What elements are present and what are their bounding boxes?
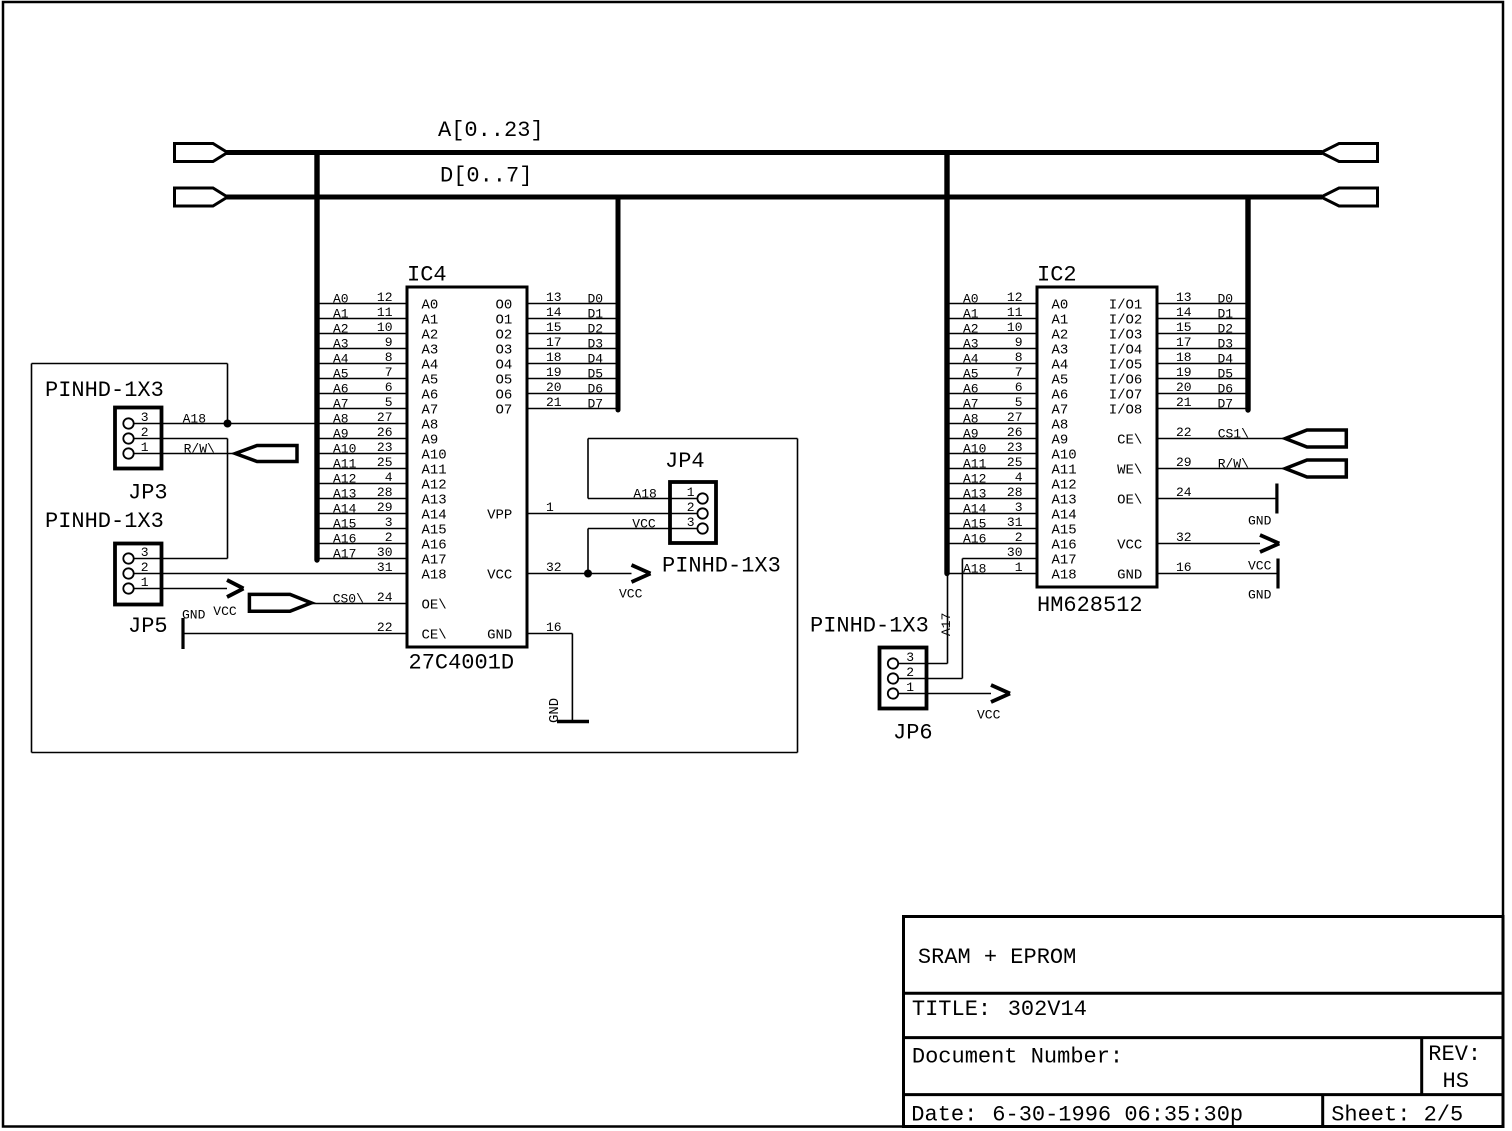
IC2 pin A4 (8) wire from bus A, net A4	[950, 350, 1038, 367]
svg-text:JP4: JP4	[665, 449, 705, 474]
svg-text:A14: A14	[963, 502, 987, 517]
wire JP6 pin3 net A17 vertical	[939, 574, 954, 664]
svg-text:I/O5: I/O5	[1109, 358, 1143, 374]
svg-text:24: 24	[1176, 485, 1192, 500]
IC4 pin A3 (9) wire from bus A, net A3	[320, 335, 408, 352]
IC4 pin A7 (5) wire from bus A, net A7	[320, 395, 408, 412]
svg-text:PINHD-1X3: PINHD-1X3	[45, 378, 164, 403]
svg-text:23: 23	[377, 440, 393, 455]
svg-text:D5: D5	[588, 367, 604, 382]
svg-text:A0: A0	[333, 292, 349, 307]
JP3 reference label	[128, 481, 168, 506]
svg-text:3: 3	[141, 410, 149, 425]
JP4 pins 1,2,3 with numbers	[670, 485, 708, 534]
IC2 pin A13 (28) wire from bus A, net A13	[950, 485, 1038, 502]
svg-text:D7: D7	[588, 397, 604, 412]
svg-text:12: 12	[377, 290, 393, 305]
svg-text:A5: A5	[1052, 373, 1069, 389]
svg-text:A4: A4	[422, 358, 439, 374]
svg-text:24: 24	[377, 590, 393, 605]
svg-text:GND: GND	[1248, 588, 1272, 603]
IC4 pin A6 (6) wire from bus A, net A6	[320, 380, 408, 397]
svg-text:A0: A0	[1052, 298, 1069, 314]
IC2 pin A18 (1) wire from bus A, net A18	[947, 560, 1037, 577]
svg-text:13: 13	[1176, 290, 1192, 305]
svg-text:A12: A12	[1052, 478, 1077, 494]
IC4 pin O1 (14) wire to bus D, net D1	[527, 305, 616, 322]
wire JP4 pin1 horizontal	[588, 487, 670, 502]
ram IC2 component box	[1037, 287, 1157, 587]
svg-text:HM628512: HM628512	[1037, 593, 1143, 618]
svg-text:A3: A3	[422, 343, 439, 359]
svg-text:Sheet: 2/5: Sheet: 2/5	[1331, 1103, 1463, 1128]
svg-text:A9: A9	[422, 433, 439, 449]
IC4 pin A4 (8) wire from bus A, net A4	[320, 350, 408, 367]
IC4 pin GND (16) wire	[527, 620, 572, 635]
svg-text:1: 1	[1015, 560, 1023, 575]
IC4 pin O6 (20) wire to bus D, net D6	[527, 380, 616, 397]
svg-text:A8: A8	[333, 412, 349, 427]
wire JP5 pin1 to VCC	[162, 588, 228, 590]
title block Sheet	[1331, 1103, 1463, 1128]
svg-text:2: 2	[141, 425, 149, 440]
svg-text:A13: A13	[1052, 493, 1077, 509]
IC4 pin O7 (21) wire to bus D, net D7	[527, 395, 616, 412]
IC2 pin I/O3 (15) wire to bus D, net D2	[1157, 320, 1246, 337]
svg-text:29: 29	[1176, 455, 1192, 470]
svg-text:3: 3	[1015, 500, 1023, 515]
svg-text:28: 28	[1007, 485, 1023, 500]
title block Date row	[911, 1103, 1243, 1128]
svg-text:R/W\: R/W\	[184, 442, 215, 457]
svg-text:IC4: IC4	[407, 263, 447, 288]
svg-text:WE\: WE\	[1117, 463, 1142, 479]
svg-text:16: 16	[1176, 560, 1192, 575]
bus D[0..7] left terminator	[175, 188, 228, 206]
IC2 pin A9 (26) wire from bus A, net A9	[950, 425, 1038, 442]
svg-text:A7: A7	[422, 403, 439, 419]
VCC symbol at JP6 pin1	[977, 685, 1010, 723]
IC2 pin A2 (10) wire from bus A, net A2	[950, 320, 1038, 337]
svg-text:20: 20	[1176, 380, 1192, 395]
svg-text:O3: O3	[495, 343, 512, 359]
ground symbol at IC2 OE\	[1248, 484, 1277, 529]
JP4 reference label	[665, 449, 705, 474]
svg-text:A11: A11	[963, 457, 987, 472]
svg-text:2: 2	[141, 560, 149, 575]
svg-text:D1: D1	[1218, 307, 1234, 322]
svg-text:VCC: VCC	[213, 604, 237, 619]
wire net A18 loop right edge	[797, 439, 799, 753]
svg-text:21: 21	[546, 395, 562, 410]
svg-text:VCC: VCC	[619, 587, 643, 602]
svg-text:A11: A11	[422, 463, 447, 479]
svg-text:13: 13	[546, 290, 562, 305]
wire JP3 pin3 net A18 to bus A	[162, 412, 318, 427]
VCC symbol right of IC2	[1248, 535, 1279, 574]
svg-text:A13: A13	[333, 487, 356, 502]
svg-text:I/O8: I/O8	[1109, 403, 1143, 419]
svg-text:D4: D4	[1218, 352, 1234, 367]
svg-text:A7: A7	[333, 397, 349, 412]
IC2 pin A7 (5) wire from bus A, net A7	[950, 395, 1038, 412]
connector JP3 PINHD-1X3 box	[115, 408, 162, 469]
svg-text:7: 7	[385, 365, 393, 380]
svg-text:Document Number:: Document Number:	[912, 1045, 1123, 1070]
connector JP6 PINHD-1X3 box	[880, 648, 927, 709]
IC2 inside pin names right column	[1109, 298, 1143, 584]
wire JP5 pin3 stub	[162, 558, 228, 560]
IC2 pin A11 (25) wire from bus A, net A11	[950, 455, 1038, 472]
ground symbol at IC4 CE\	[182, 608, 206, 650]
svg-text:HS: HS	[1443, 1069, 1469, 1094]
svg-text:30: 30	[377, 545, 393, 560]
svg-text:1: 1	[906, 680, 914, 695]
svg-text:14: 14	[546, 305, 562, 320]
svg-text:A16: A16	[1052, 538, 1077, 554]
svg-text:26: 26	[377, 425, 393, 440]
svg-text:VCC: VCC	[487, 568, 512, 584]
IC4 pin O2 (15) wire to bus D, net D2	[527, 320, 616, 337]
IC4 pin A13 (28) wire from bus A, net A13	[320, 485, 408, 502]
svg-text:A17: A17	[939, 613, 954, 636]
wire net A18 loop top-left	[32, 363, 228, 365]
svg-text:19: 19	[546, 365, 562, 380]
net CS0\ offpage flag	[249, 594, 311, 611]
svg-text:A3: A3	[1052, 343, 1069, 359]
bus A[0..23] right terminator	[1321, 144, 1378, 162]
title block frame	[904, 917, 1504, 1127]
svg-text:A17: A17	[333, 547, 356, 562]
IC2 pin WE\ (29) wire, net R/W\	[1157, 455, 1285, 472]
IC2 pin A5 (7) wire from bus A, net A5	[950, 365, 1038, 382]
IC4 pin A5 (7) wire from bus A, net A5	[320, 365, 408, 382]
wire JP3 pin2 to JP5 pin3 (vert)	[227, 439, 229, 559]
svg-text:31: 31	[1007, 515, 1023, 530]
svg-text:A5: A5	[963, 367, 979, 382]
svg-text:D2: D2	[588, 322, 604, 337]
svg-text:15: 15	[546, 320, 562, 335]
svg-text:21: 21	[1176, 395, 1192, 410]
svg-text:22: 22	[377, 620, 393, 635]
svg-text:A13: A13	[963, 487, 986, 502]
IC4 pin OE\ (24) wire with net CS0\	[311, 590, 407, 607]
JP3 pins 3,2,1 with numbers	[123, 410, 161, 459]
IC4 pin A0 (12) wire from bus A, net A0	[320, 290, 408, 307]
svg-text:I/O7: I/O7	[1109, 388, 1143, 404]
svg-text:A12: A12	[963, 472, 986, 487]
IC2 pin A15 (31) wire from bus A, net A15	[950, 515, 1038, 532]
svg-text:VCC: VCC	[1248, 559, 1272, 574]
svg-text:A15: A15	[333, 517, 356, 532]
title block text SRAM + EPROM	[918, 945, 1076, 970]
svg-text:D6: D6	[588, 382, 604, 397]
svg-text:CE\: CE\	[422, 628, 447, 644]
svg-text:A12: A12	[333, 472, 356, 487]
svg-text:Date:: Date:	[911, 1103, 977, 1128]
svg-text:R/W\: R/W\	[1218, 457, 1249, 472]
svg-text:GND: GND	[1117, 568, 1142, 584]
IC2 pin A16 (2) wire from bus A, net A16	[950, 530, 1038, 547]
svg-text:A0: A0	[963, 292, 979, 307]
svg-text:1: 1	[141, 440, 149, 455]
svg-text:A1: A1	[1052, 313, 1069, 329]
IC4 pin A9 (26) wire from bus A, net A9	[320, 425, 408, 442]
JP3 library label PINHD-1X3	[45, 378, 164, 403]
svg-text:VCC: VCC	[1117, 538, 1142, 554]
svg-text:A14: A14	[1052, 508, 1077, 524]
wire JP6 pin3 net A17 horizontal	[927, 663, 948, 665]
svg-text:A18: A18	[963, 562, 986, 577]
VCC symbol at JP5 pin1	[213, 580, 243, 619]
svg-text:A17: A17	[1052, 553, 1077, 569]
svg-text:1: 1	[546, 500, 554, 515]
connector JP4 PINHD-1X3 box	[670, 482, 716, 543]
svg-text:IC2: IC2	[1037, 263, 1077, 288]
svg-text:A16: A16	[963, 532, 986, 547]
svg-text:A6: A6	[333, 382, 349, 397]
bus A[0..23] horizontal	[226, 150, 1322, 155]
bus drop to IC4 address pins	[314, 153, 319, 560]
svg-text:A10: A10	[333, 442, 356, 457]
svg-text:A1: A1	[963, 307, 979, 322]
svg-text:O2: O2	[495, 328, 512, 344]
svg-text:6: 6	[385, 380, 393, 395]
svg-text:10: 10	[1007, 320, 1023, 335]
svg-text:7: 7	[1015, 365, 1023, 380]
svg-text:A12: A12	[422, 478, 447, 494]
svg-text:A15: A15	[1052, 523, 1077, 539]
JP6 library label PINHD-1X3	[810, 614, 929, 639]
IC2 inside pin names left column	[1052, 298, 1077, 584]
svg-text:302V14: 302V14	[1008, 997, 1087, 1022]
svg-text:GND: GND	[547, 698, 563, 723]
svg-text:11: 11	[1007, 305, 1023, 320]
svg-text:31: 31	[377, 560, 393, 575]
svg-text:I/O6: I/O6	[1109, 373, 1143, 389]
IC2 pin I/O8 (21) wire to bus D, net D7	[1157, 395, 1246, 412]
svg-text:11: 11	[377, 305, 393, 320]
IC4 pin A12 (4) wire from bus A, net A12	[320, 470, 408, 487]
svg-text:A13: A13	[422, 493, 447, 509]
svg-text:D2: D2	[1218, 322, 1234, 337]
bus drop to IC4 data pins	[616, 198, 621, 410]
net CS1\ offpage flag	[1285, 430, 1346, 447]
wire JP6 pin1 to VCC	[927, 693, 992, 695]
IC2 pin GND (16) wire to ground	[1157, 560, 1278, 575]
svg-text:A16: A16	[333, 532, 356, 547]
svg-text:A2: A2	[963, 322, 979, 337]
wire IC4 GND down	[571, 634, 573, 722]
JP6 reference label	[893, 721, 933, 746]
svg-text:VPP: VPP	[487, 508, 512, 524]
svg-text:A3: A3	[963, 337, 979, 352]
svg-text:A8: A8	[422, 418, 439, 434]
IC2 pin A6 (6) wire from bus A, net A6	[950, 380, 1038, 397]
svg-text:32: 32	[1176, 530, 1192, 545]
svg-text:5: 5	[385, 395, 393, 410]
wire JP6 pin2 to IC2 A17 vertical	[961, 559, 963, 679]
wire JP3 pin2 to JP5 pin3 (horiz)	[162, 438, 228, 440]
JP5 reference label	[128, 614, 168, 639]
svg-text:10: 10	[377, 320, 393, 335]
svg-text:27: 27	[1007, 410, 1023, 425]
IC4 pin O5 (19) wire to bus D, net D5	[527, 365, 616, 382]
svg-text:A10: A10	[963, 442, 986, 457]
svg-text:I/O4: I/O4	[1109, 343, 1143, 359]
svg-text:17: 17	[1176, 335, 1192, 350]
IC2 pin I/O5 (18) wire to bus D, net D4	[1157, 350, 1246, 367]
svg-text:I/O2: I/O2	[1109, 313, 1143, 329]
title block Document Number row	[912, 1045, 1123, 1070]
IC4 pin A1 (11) wire from bus A, net A1	[320, 305, 408, 322]
svg-text:23: 23	[1007, 440, 1023, 455]
svg-text:12: 12	[1007, 290, 1023, 305]
svg-text:A[0..23]: A[0..23]	[438, 118, 544, 143]
svg-text:A0: A0	[422, 298, 439, 314]
svg-text:6: 6	[1015, 380, 1023, 395]
IC2 pin CE\ (22) wire, net CS1\	[1157, 425, 1285, 442]
IC4 pin A16 (2) wire from bus A, net A16	[320, 530, 408, 547]
wire JP4 pin3 branch vertical	[587, 529, 589, 574]
svg-text:SRAM + EPROM: SRAM + EPROM	[918, 945, 1076, 970]
svg-text:A11: A11	[1052, 463, 1077, 479]
svg-text:A7: A7	[1052, 403, 1069, 419]
svg-text:A18: A18	[1052, 568, 1077, 584]
svg-text:5: 5	[1015, 395, 1023, 410]
IC2 value label HM628512	[1037, 593, 1143, 618]
svg-text:A9: A9	[333, 427, 349, 442]
JP4 library label PINHD-1X3	[662, 554, 781, 579]
svg-text:18: 18	[1176, 350, 1192, 365]
svg-text:A4: A4	[333, 352, 349, 367]
svg-text:D3: D3	[1218, 337, 1234, 352]
bus drop to IC2 data pins	[1245, 198, 1250, 410]
svg-text:3: 3	[141, 545, 149, 560]
svg-text:O1: O1	[495, 313, 512, 329]
bus A[0..23] left terminator	[175, 144, 228, 162]
IC4 pin A2 (10) wire from bus A, net A2	[320, 320, 408, 337]
wire net A18 loop bottom edge	[32, 752, 798, 754]
IC2 pin I/O4 (17) wire to bus D, net D3	[1157, 335, 1246, 352]
IC2 pin A8 (27) wire from bus A, net A8	[950, 410, 1038, 427]
svg-text:28: 28	[377, 485, 393, 500]
svg-text:A10: A10	[422, 448, 447, 464]
svg-text:A14: A14	[333, 502, 357, 517]
svg-text:A15: A15	[963, 517, 986, 532]
svg-text:D[0..7]: D[0..7]	[440, 164, 532, 189]
wire JP4 pin3 branch horizontal	[588, 517, 670, 532]
ground symbol below IC4	[547, 698, 589, 723]
svg-text:PINHD-1X3: PINHD-1X3	[810, 614, 929, 639]
svg-text:32: 32	[546, 560, 562, 575]
svg-text:2: 2	[906, 665, 914, 680]
svg-text:8: 8	[1015, 350, 1023, 365]
IC2 pin I/O1 (13) wire to bus D, net D0	[1157, 290, 1246, 307]
svg-text:17: 17	[546, 335, 562, 350]
VCC symbol right of IC4	[619, 565, 651, 602]
svg-text:2: 2	[385, 530, 393, 545]
svg-text:A4: A4	[1052, 358, 1069, 374]
bus D[0..7] horizontal	[226, 195, 1322, 200]
svg-text:A5: A5	[333, 367, 349, 382]
svg-text:A18: A18	[633, 487, 656, 502]
IC2 pin OE\ (24) wire to ground	[1157, 485, 1277, 500]
bus D[0..7] right terminator	[1321, 188, 1378, 206]
svg-text:27: 27	[377, 410, 393, 425]
svg-text:A6: A6	[1052, 388, 1069, 404]
svg-text:OE\: OE\	[1117, 493, 1142, 509]
svg-text:22: 22	[1176, 425, 1192, 440]
net R/W\ offpage flag at JP3	[235, 446, 297, 462]
IC2 pin A10 (23) wire from bus A, net A10	[950, 440, 1038, 457]
junction on net A18 at JP3	[224, 420, 232, 428]
svg-text:A14: A14	[422, 508, 447, 524]
svg-text:CE\: CE\	[1117, 433, 1142, 449]
svg-text:2: 2	[1015, 530, 1023, 545]
JP5 library label PINHD-1X3	[45, 509, 164, 534]
svg-text:A15: A15	[422, 523, 447, 539]
IC4 pin A8 (27) wire from bus A, net A8	[320, 410, 408, 427]
svg-text:D0: D0	[588, 292, 604, 307]
svg-text:A9: A9	[1052, 433, 1069, 449]
svg-text:D6: D6	[1218, 382, 1234, 397]
svg-text:4: 4	[385, 470, 393, 485]
IC2 pin I/O2 (14) wire to bus D, net D1	[1157, 305, 1246, 322]
wire net A18 loop up	[227, 364, 229, 424]
IC4 pin O0 (13) wire to bus D, net D0	[527, 290, 616, 307]
IC2 reference label	[1037, 263, 1077, 288]
svg-text:D4: D4	[588, 352, 604, 367]
svg-text:A6: A6	[422, 388, 439, 404]
svg-text:PINHD-1X3: PINHD-1X3	[662, 554, 781, 579]
IC2 pin I/O6 (19) wire to bus D, net D5	[1157, 365, 1246, 382]
bus D[0..7] name label	[440, 164, 532, 189]
wire net A18 loop top-right	[588, 438, 798, 440]
wire net A18 loop left edge	[31, 364, 33, 753]
svg-text:2: 2	[687, 500, 695, 515]
svg-text:9: 9	[1015, 335, 1023, 350]
IC4 pin O3 (17) wire to bus D, net D3	[527, 335, 616, 352]
IC2 pin I/O7 (20) wire to bus D, net D6	[1157, 380, 1246, 397]
connector JP5 PINHD-1X3 box	[115, 544, 162, 605]
svg-text:A2: A2	[1052, 328, 1069, 344]
IC2 pin A14 (3) wire from bus A, net A14	[950, 500, 1038, 517]
IC4 inside pin names left column	[422, 298, 447, 644]
svg-text:1: 1	[687, 485, 695, 500]
svg-text:I/O1: I/O1	[1109, 298, 1143, 314]
svg-text:JP6: JP6	[893, 721, 933, 746]
svg-text:20: 20	[546, 380, 562, 395]
svg-text:REV:: REV:	[1428, 1042, 1481, 1067]
IC2 pin A3 (9) wire from bus A, net A3	[950, 335, 1038, 352]
svg-text:19: 19	[1176, 365, 1192, 380]
svg-text:VCC: VCC	[977, 708, 1001, 723]
IC2 pin A17 (30) wire from JP6 pin2	[962, 545, 1037, 560]
svg-text:18: 18	[546, 350, 562, 365]
svg-text:3: 3	[906, 650, 914, 665]
IC2 pin VCC (32) wire	[1157, 530, 1260, 545]
svg-text:29: 29	[377, 500, 393, 515]
IC4 pin O4 (18) wire to bus D, net D4	[527, 350, 616, 367]
svg-text:A18: A18	[183, 412, 206, 427]
IC2 pin A12 (4) wire from bus A, net A12	[950, 470, 1038, 487]
svg-text:D7: D7	[1218, 397, 1234, 412]
IC2 pin A0 (12) wire from bus A, net A0	[950, 290, 1038, 307]
svg-text:A8: A8	[1052, 418, 1069, 434]
svg-text:A10: A10	[1052, 448, 1077, 464]
op IC4 component box	[407, 287, 527, 647]
